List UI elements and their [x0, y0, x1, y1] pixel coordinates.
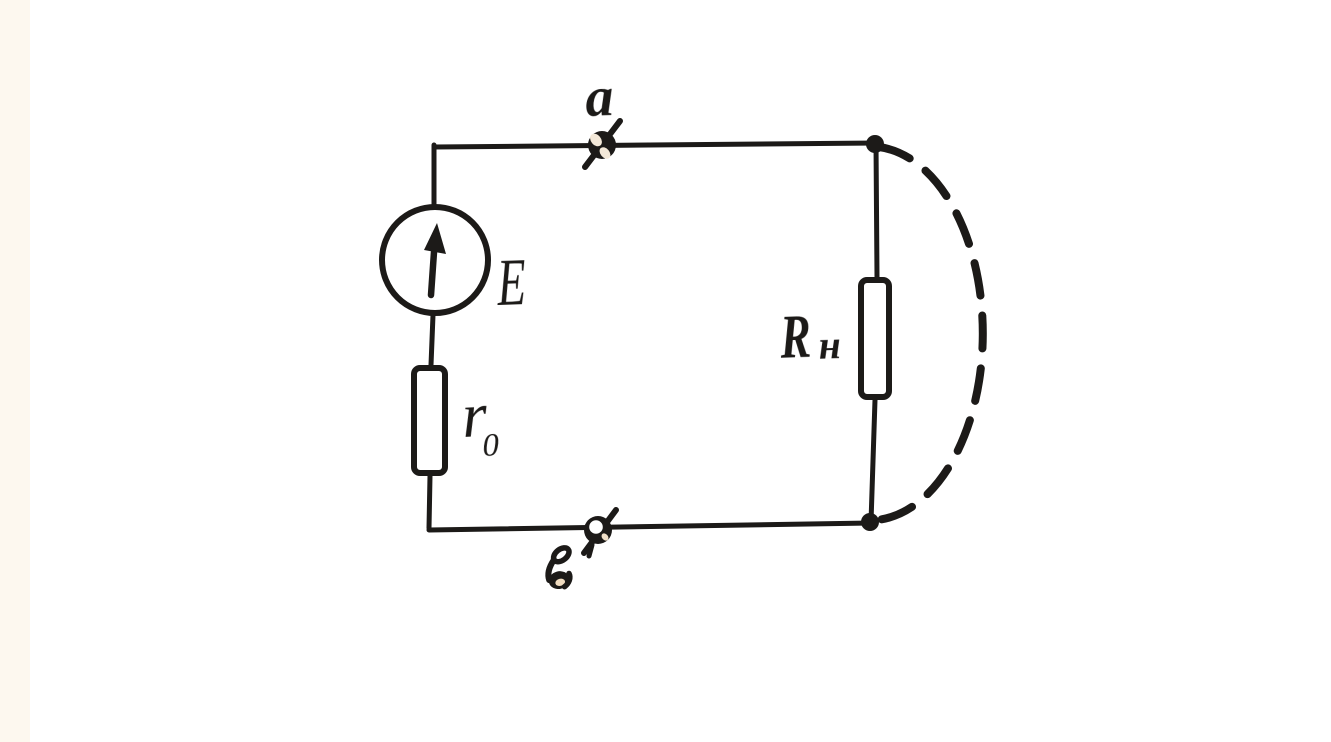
resistor Rn [861, 280, 889, 397]
voltage source E [382, 207, 488, 313]
dashed arc: load switching path [877, 147, 983, 520]
wire top: left corner to right node [434, 143, 877, 147]
label r0 [460, 379, 490, 451]
label E [495, 244, 527, 320]
wire right vertical lower: resistor Rn to bottom node [871, 400, 875, 522]
terminal a symbol [585, 121, 620, 167]
node bottom-right junction [861, 513, 879, 531]
source E arrow [431, 252, 434, 295]
scan edge tint [0, 0, 30, 742]
wire left vertical: top corner down to source E [432, 145, 437, 204]
svg-text:E: E [495, 244, 527, 320]
wire: source E to resistor r0 [431, 315, 433, 365]
wire bottom: left corner to right node [429, 523, 871, 530]
svg-text:0: 0 [482, 427, 501, 464]
label v (Cyrillic ve) [547, 545, 572, 591]
node top-right junction [866, 135, 884, 153]
svg-text:н: н [818, 322, 842, 368]
label a [584, 66, 614, 129]
svg-text:a: a [584, 66, 614, 129]
wire: resistor r0 to bottom corner [429, 476, 430, 528]
terminal b symbol [584, 510, 616, 556]
svg-text:R: R [778, 301, 812, 371]
label Rn [778, 301, 812, 371]
resistor r0 [414, 368, 445, 473]
wire right vertical upper: node to resistor Rn [876, 143, 877, 277]
